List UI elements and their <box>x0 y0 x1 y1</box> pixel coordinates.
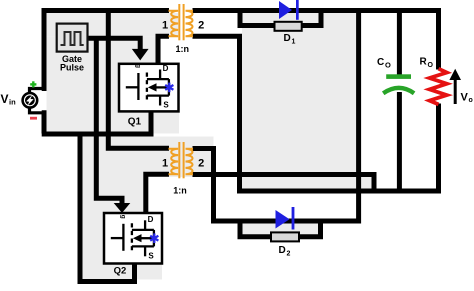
svg-text:1:n: 1:n <box>173 185 187 195</box>
svg-text:Pulse: Pulse <box>60 63 84 73</box>
Gate Pulse block <box>57 24 88 73</box>
wire top rail left segment (Vin+ up and right to T1 primary terminal 1) <box>42 11 169 89</box>
wire T2 secondary top down and right along D2 rail up to top rail <box>193 11 359 222</box>
resistor R_O <box>430 69 447 105</box>
svg-text:Q2: Q2 <box>114 266 127 277</box>
capacitor C_O <box>383 74 414 93</box>
transformer T1 (1:n) <box>169 4 194 40</box>
svg-text:D: D <box>279 245 286 256</box>
voltage source Vin <box>23 93 38 108</box>
plus terminal mark <box>30 81 36 87</box>
wire Vin negative stub <box>30 109 43 113</box>
svg-text:O: O <box>428 62 434 69</box>
svg-text:S: S <box>163 101 169 110</box>
wire C_O branch lower <box>397 92 402 191</box>
svg-text:V: V <box>461 92 469 104</box>
gate drive arrowhead into Q1 <box>132 49 149 61</box>
wire T1 secondary bottom down and right along output return to R_O bottom <box>193 36 439 191</box>
wire left rail lower segment (Vin- down to bottom bar) <box>42 113 44 134</box>
wire bottom bar (Vin- right to Q1 source pin) <box>42 111 151 135</box>
svg-text:D: D <box>163 64 169 73</box>
gate drive arrowhead into Q2 <box>114 203 131 213</box>
svg-text:2: 2 <box>287 251 291 258</box>
svg-text:o: o <box>469 97 473 104</box>
svg-text:R: R <box>420 57 428 68</box>
svg-text:g: g <box>119 215 126 219</box>
wire C_O branch upper <box>397 11 402 75</box>
wire gate bus down to Q2 gate <box>96 38 122 203</box>
svg-text:D: D <box>284 33 291 44</box>
label Vin <box>1 92 17 107</box>
svg-text:D: D <box>148 215 154 224</box>
svg-text:g: g <box>134 64 141 68</box>
wire Vin- branch down to Q2 source pin <box>80 134 135 282</box>
wire Vin+ rail down to T2 primary terminal 1 <box>108 11 169 149</box>
wire T2 secondary bottom rail joining output return <box>193 175 375 192</box>
label D1 <box>284 33 296 46</box>
svg-text:1: 1 <box>292 39 296 46</box>
wire D1 bypass loop <box>240 12 321 26</box>
svg-text:O: O <box>385 61 391 70</box>
label C_O <box>377 57 391 70</box>
MOSFET Q2 <box>104 213 162 264</box>
transformer T2 (1:n) <box>169 142 194 178</box>
minus terminal mark <box>30 117 37 120</box>
diode D1 <box>275 0 302 31</box>
wire T1 primary bottom to Q1 drain pin <box>158 36 169 63</box>
wire Gate Pulse output to Q1 gate <box>86 38 140 51</box>
label R_O <box>420 57 434 70</box>
svg-text:2: 2 <box>198 157 204 169</box>
label D2 <box>279 245 291 258</box>
label Vo <box>461 92 473 105</box>
svg-text:2: 2 <box>198 19 204 31</box>
diode D2 <box>271 207 299 241</box>
svg-text:V: V <box>1 92 9 106</box>
MOSFET Q1 <box>119 64 179 112</box>
wire Vin positive stub <box>30 89 43 93</box>
wire D2 bypass loop <box>240 222 321 237</box>
svg-text:C: C <box>377 57 384 68</box>
wire T2 primary bottom to Q2 drain pin <box>146 174 169 213</box>
output voltage arrow Vo <box>449 69 461 104</box>
svg-text:1: 1 <box>162 19 168 31</box>
svg-text:1: 1 <box>162 157 168 169</box>
svg-text:in: in <box>9 98 16 107</box>
svg-text:S: S <box>148 251 154 260</box>
wire top rail right segment (T1 secondary top past D1 to R_O branch) <box>193 11 439 70</box>
svg-text:1:n: 1:n <box>176 44 190 54</box>
svg-text:Q1: Q1 <box>128 117 142 128</box>
